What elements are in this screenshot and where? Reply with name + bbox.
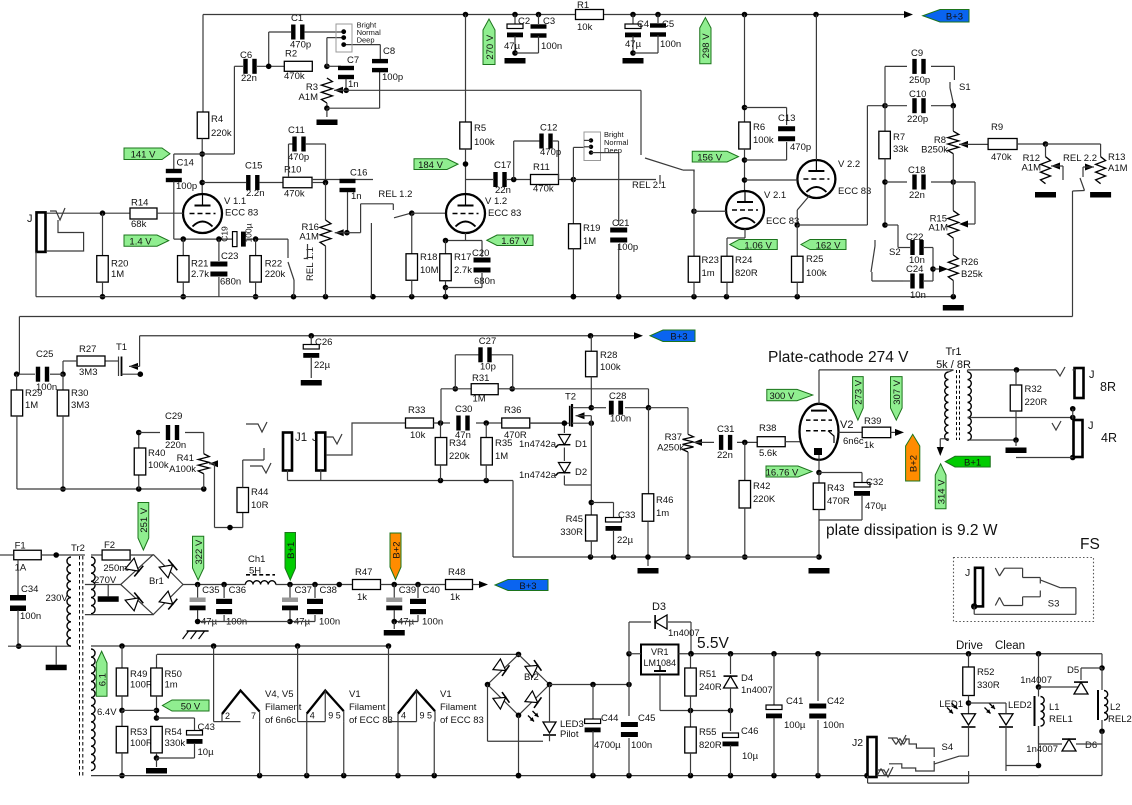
svg-text:C7: C7 [347,55,359,66]
svg-text:R9: R9 [991,122,1003,133]
svg-text:4R: 4R [1101,431,1117,445]
svg-text:240R: 240R [699,682,722,693]
svg-text:R5: R5 [474,123,486,134]
svg-text:5H: 5H [249,566,261,577]
svg-text:1n4742a: 1n4742a [519,470,557,481]
svg-text:R7: R7 [893,132,905,143]
svg-text:R48: R48 [448,567,465,578]
svg-text:10k: 10k [410,430,426,441]
svg-text:1m: 1m [656,508,669,519]
svg-text:100R: 100R [130,680,153,691]
svg-text:D3: D3 [652,601,666,613]
svg-text:5: 5 [427,711,432,721]
svg-text:J: J [1089,369,1095,381]
svg-text:R38: R38 [759,423,776,434]
svg-text:C14: C14 [177,158,194,169]
svg-text:LED1: LED1 [939,699,963,710]
svg-text:of ECC 83: of ECC 83 [349,715,393,726]
svg-text:220k: 220k [211,128,232,139]
svg-text:100n: 100n [20,611,41,622]
svg-text:V 2.1: V 2.1 [764,190,786,201]
svg-text:100k: 100k [474,137,495,148]
svg-text:C18: C18 [908,165,925,176]
svg-text:330R: 330R [560,527,583,538]
svg-text:220k: 220k [449,451,470,462]
svg-text:820R: 820R [735,268,758,279]
svg-text:C31: C31 [717,424,734,435]
svg-text:100n: 100n [319,617,340,628]
svg-text:Plate-cathode 274 V: Plate-cathode 274 V [768,349,909,366]
svg-text:C17: C17 [494,160,511,171]
svg-text:100n: 100n [631,740,652,751]
svg-text:50 V: 50 V [181,701,201,712]
svg-text:C32: C32 [866,477,883,488]
svg-text:1n4007: 1n4007 [1020,675,1052,686]
svg-text:470p: 470p [790,142,811,153]
svg-text:ECC 83: ECC 83 [488,208,521,219]
svg-text:230V: 230V [46,593,69,604]
svg-text:A1M: A1M [299,232,319,243]
svg-text:VR1: VR1 [651,647,669,657]
svg-text:10n: 10n [910,290,926,301]
svg-text:R23: R23 [702,255,719,266]
svg-text:R14: R14 [131,198,148,209]
svg-text:1m: 1m [165,680,178,691]
svg-text:47µ: 47µ [625,39,642,50]
svg-text:REL2: REL2 [1108,714,1132,725]
svg-text:1M: 1M [473,394,486,405]
svg-text:ECC 83: ECC 83 [225,208,258,219]
svg-text:R19: R19 [583,223,600,234]
svg-text:2.7k: 2.7k [191,269,209,280]
svg-text:R55: R55 [699,727,716,738]
svg-text:4700µ: 4700µ [594,740,621,751]
svg-text:100p: 100p [382,72,403,83]
svg-text:680n: 680n [474,276,495,287]
svg-text:C43: C43 [198,722,215,733]
svg-text:C8: C8 [383,46,395,57]
svg-text:5.6k: 5.6k [759,448,777,459]
svg-text:R29: R29 [25,388,42,399]
svg-text:R1: R1 [577,0,589,11]
svg-text:REL1: REL1 [1049,714,1073,725]
svg-text:F1: F1 [15,541,26,552]
svg-text:100p: 100p [617,242,638,253]
svg-text:T2: T2 [565,392,576,403]
svg-text:1M: 1M [583,236,596,247]
svg-text:B+1: B+1 [964,457,981,468]
svg-text:ECC 83: ECC 83 [766,216,799,227]
svg-text:C29: C29 [165,411,182,422]
svg-text:C39: C39 [399,585,416,596]
svg-text:1A: 1A [15,563,27,574]
svg-text:1M: 1M [495,451,508,462]
svg-text:REL 1.1: REL 1.1 [305,247,316,281]
svg-text:C9: C9 [911,48,923,59]
svg-text:273 V: 273 V [854,379,865,404]
svg-text:10p: 10p [480,362,496,373]
svg-text:C20: C20 [472,248,489,259]
svg-text:250p: 250p [909,75,930,86]
svg-text:C42: C42 [827,696,844,707]
svg-text:270 V: 270 V [485,34,496,59]
svg-text:B+1: B+1 [286,542,297,559]
svg-text:Br1: Br1 [149,576,164,587]
svg-text:470k: 470k [991,152,1012,163]
svg-text:1M: 1M [111,269,124,280]
svg-text:C33: C33 [618,510,635,521]
svg-text:100n: 100n [823,720,844,731]
svg-text:V1: V1 [349,689,361,700]
svg-text:V 1.2: V 1.2 [485,196,507,207]
svg-text:D6: D6 [1085,740,1097,751]
svg-text:2.7k: 2.7k [454,265,472,276]
svg-text:A1M: A1M [1021,163,1041,174]
svg-text:C6: C6 [240,50,252,61]
svg-text:162 V: 162 V [816,240,841,251]
svg-text:B+3: B+3 [670,332,687,343]
svg-text:220K: 220K [753,494,776,505]
svg-text:5k / 8R: 5k / 8R [936,359,971,371]
svg-text:R25: R25 [806,254,823,265]
svg-text:J1: J1 [295,432,307,444]
svg-text:C13: C13 [778,113,795,124]
svg-text:B+3: B+3 [946,12,963,23]
svg-text:L2: L2 [1110,702,1121,713]
svg-text:298 V: 298 V [701,33,712,58]
svg-text:R35: R35 [495,438,512,449]
svg-text:A250k: A250k [657,443,684,454]
svg-text:R26: R26 [961,257,978,268]
svg-text:R13: R13 [1108,152,1125,163]
svg-text:D5: D5 [1067,665,1079,676]
svg-text:16.76 V: 16.76 V [766,467,799,478]
svg-text:B+2: B+2 [909,455,920,472]
svg-text:R30: R30 [71,388,88,399]
svg-text:8R: 8R [1100,380,1116,394]
svg-text:R50: R50 [165,669,182,680]
svg-text:251 V: 251 V [139,507,150,532]
svg-text:1n: 1n [348,79,359,90]
svg-text:Deep: Deep [357,36,375,45]
svg-text:plate dissipation is 9.2 W: plate dissipation is 9.2 W [826,522,998,539]
svg-text:Ch1: Ch1 [248,554,265,565]
svg-text:C46: C46 [741,726,758,737]
svg-text:R52: R52 [977,667,994,678]
svg-text:R49: R49 [130,669,147,680]
svg-text:100R: 100R [130,738,153,749]
svg-text:D1: D1 [575,439,587,450]
svg-text:C35: C35 [202,585,219,596]
svg-text:100n: 100n [422,617,443,628]
svg-text:R6: R6 [753,122,765,133]
svg-text:4: 4 [310,711,315,721]
svg-text:1n4007: 1n4007 [741,685,773,696]
svg-text:C12: C12 [540,123,557,134]
svg-text:470R: 470R [827,496,850,507]
svg-text:B+2: B+2 [391,541,402,558]
svg-text:470k: 470k [284,71,305,82]
svg-text:R21: R21 [191,259,208,270]
svg-text:C26: C26 [315,337,332,348]
svg-text:22n: 22n [495,185,511,196]
svg-text:of 6n6c: of 6n6c [265,715,296,726]
svg-text:V 1.1: V 1.1 [224,196,246,207]
svg-text:47µ: 47µ [504,41,521,52]
svg-text:C27: C27 [479,336,496,347]
svg-text:R41: R41 [177,453,194,464]
svg-text:L1: L1 [1049,702,1060,713]
svg-text:R39: R39 [864,416,881,427]
svg-text:Clean: Clean [995,640,1025,652]
svg-text:3M3: 3M3 [79,367,97,378]
svg-text:Filament: Filament [265,702,302,713]
svg-text:2: 2 [225,711,230,721]
svg-text:184 V: 184 V [418,160,443,171]
svg-text:R40: R40 [148,448,165,459]
svg-text:220p: 220p [907,114,928,125]
svg-text:10µ: 10µ [742,751,759,762]
svg-text:C36: C36 [229,585,246,596]
svg-text:9: 9 [420,711,425,721]
svg-text:156 V: 156 V [697,152,722,163]
svg-text:J: J [965,567,970,579]
svg-text:680n: 680n [220,277,241,288]
svg-text:V2: V2 [840,419,853,431]
svg-text:100n: 100n [541,41,562,52]
svg-text:R31: R31 [472,373,489,384]
svg-text:R43: R43 [827,483,844,494]
svg-text:B+3: B+3 [519,581,536,592]
svg-text:D4: D4 [741,673,753,684]
svg-text:R32: R32 [1025,384,1042,395]
svg-text:Pilot: Pilot [560,729,579,740]
svg-text:C40: C40 [423,585,440,596]
svg-text:22n: 22n [717,450,733,461]
svg-text:100n: 100n [660,39,681,50]
svg-text:R36: R36 [504,405,521,416]
svg-text:R24: R24 [735,255,752,266]
svg-text:REL 2.2: REL 2.2 [1063,153,1097,164]
svg-text:1k: 1k [864,440,874,451]
svg-text:1n: 1n [351,191,362,202]
svg-text:T1: T1 [116,342,127,353]
svg-text:220k: 220k [265,269,286,280]
svg-text:3M3: 3M3 [71,400,89,411]
svg-text:470k: 470k [284,189,305,200]
svg-text:100k: 100k [600,362,621,373]
svg-text:33k: 33k [893,144,909,155]
svg-text:10R: 10R [251,500,269,511]
svg-text:C23: C23 [221,251,238,262]
svg-text:REL 2.1: REL 2.1 [632,180,666,191]
svg-text:300 V: 300 V [769,391,794,402]
svg-text:C37: C37 [295,585,312,596]
svg-text:S3: S3 [1048,598,1060,609]
svg-text:J: J [1088,420,1094,432]
svg-text:68k: 68k [131,219,147,230]
svg-text:A100k: A100k [169,464,196,475]
svg-text:470k: 470k [533,184,554,195]
svg-text:R44: R44 [251,487,268,498]
svg-text:R42: R42 [753,481,770,492]
svg-text:6n6c: 6n6c [843,436,864,447]
svg-text:22µ: 22µ [617,535,634,546]
svg-text:Drive: Drive [956,640,983,652]
svg-text:of ECC 83: of ECC 83 [440,715,484,726]
svg-text:C5: C5 [662,19,674,30]
svg-text:R27: R27 [79,344,96,355]
svg-text:220n: 220n [165,440,186,451]
svg-text:820R: 820R [699,740,722,751]
svg-text:C3: C3 [543,16,555,27]
svg-text:A1M: A1M [298,92,318,103]
svg-text:S4: S4 [942,742,954,753]
svg-text:10k: 10k [577,22,593,33]
svg-text:C34: C34 [21,584,38,595]
svg-text:5: 5 [336,711,341,721]
svg-text:R34: R34 [449,438,466,449]
svg-text:C16: C16 [350,168,367,179]
svg-text:R10: R10 [284,165,301,176]
svg-text:C30: C30 [455,404,472,415]
svg-text:J2: J2 [852,737,863,749]
svg-text:Tr1: Tr1 [945,346,961,358]
svg-text:C45: C45 [638,713,655,724]
svg-text:Tr2: Tr2 [71,543,85,554]
svg-text:B25k: B25k [961,269,983,280]
svg-text:C11: C11 [288,125,305,136]
svg-text:470p: 470p [290,40,311,51]
svg-text:R45: R45 [566,514,583,525]
svg-text:100µ: 100µ [784,720,806,731]
svg-text:R53: R53 [130,727,147,738]
svg-text:100n: 100n [610,414,631,425]
svg-text:100k: 100k [148,460,169,471]
svg-text:1n4742a: 1n4742a [519,439,557,450]
svg-text:R4: R4 [211,114,223,125]
svg-text:2.2n: 2.2n [246,188,265,199]
svg-text:R17: R17 [454,252,471,263]
svg-text:R28: R28 [600,350,617,361]
svg-text:R18: R18 [420,252,437,263]
svg-text:Br2: Br2 [524,672,539,683]
svg-text:100p: 100p [176,181,197,192]
svg-text:C1: C1 [291,13,303,24]
svg-text:1.4 V: 1.4 V [129,236,152,247]
svg-text:C10: C10 [909,89,926,100]
svg-text:C15: C15 [245,161,262,172]
svg-text:FS: FS [1080,536,1100,553]
svg-text:ECC 83: ECC 83 [838,186,871,197]
svg-text:C41: C41 [786,696,803,707]
svg-text:220R: 220R [1025,397,1048,408]
svg-text:C44: C44 [601,713,618,724]
svg-text:330k: 330k [165,738,186,749]
svg-text:C28: C28 [609,391,626,402]
svg-text:C24: C24 [906,264,923,275]
svg-text:R33: R33 [408,405,425,416]
svg-text:314 V: 314 V [936,479,947,504]
svg-text:Filament: Filament [440,702,477,713]
svg-text:1k: 1k [450,592,460,603]
svg-text:100k: 100k [753,135,774,146]
svg-text:1k: 1k [357,592,367,603]
svg-text:1.67 V: 1.67 V [501,236,529,247]
svg-text:22n: 22n [909,190,925,201]
svg-text:307 V: 307 V [892,379,903,404]
svg-text:1M: 1M [25,400,38,411]
svg-text:1.06 V: 1.06 V [744,240,772,251]
svg-text:1n4007: 1n4007 [668,628,700,639]
svg-text:322 V: 322 V [194,539,205,564]
svg-text:R20: R20 [111,259,128,270]
svg-text:D2: D2 [575,467,587,478]
svg-text:C4: C4 [637,19,649,30]
svg-text:S2: S2 [889,247,901,258]
svg-text:C21: C21 [612,218,629,229]
svg-text:470µ: 470µ [865,501,887,512]
svg-text:6.1: 6.1 [97,673,108,686]
svg-text:LED2: LED2 [1008,700,1032,711]
svg-text:100k: 100k [806,268,827,279]
svg-text:R37: R37 [665,432,682,443]
svg-text:REL 1.2: REL 1.2 [378,189,412,200]
svg-text:R54: R54 [165,727,182,738]
svg-text:10µ: 10µ [198,747,215,758]
svg-text:10M: 10M [420,265,439,276]
svg-text:1m: 1m [702,268,715,279]
svg-text:22n: 22n [241,73,257,84]
svg-text:330R: 330R [977,680,1000,691]
svg-text:470p: 470p [288,152,309,163]
svg-text:C22: C22 [906,232,923,243]
svg-text:V1: V1 [440,689,452,700]
svg-text:A1M: A1M [1108,163,1128,174]
svg-text:R47: R47 [355,567,372,578]
svg-text:R11: R11 [533,162,550,173]
svg-text:5.5V: 5.5V [697,635,730,652]
svg-text:22µ: 22µ [314,360,331,371]
svg-text:R22: R22 [265,259,282,270]
svg-text:V 2.2: V 2.2 [838,159,860,170]
svg-text:4: 4 [401,711,406,721]
svg-text:J: J [27,213,33,225]
svg-text:9: 9 [328,711,333,721]
svg-text:6.4V: 6.4V [97,707,117,718]
svg-text:F2: F2 [104,540,115,551]
svg-text:141 V: 141 V [131,150,156,161]
svg-text:R46: R46 [656,495,673,506]
svg-text:V4, V5: V4, V5 [265,689,294,700]
svg-text:R51: R51 [699,669,716,680]
svg-text:Filament: Filament [349,702,386,713]
svg-text:C19: C19 [220,226,230,242]
svg-text:7: 7 [251,711,256,721]
svg-text:A1M: A1M [928,223,948,234]
svg-text:C25: C25 [36,349,53,360]
svg-text:B250k: B250k [921,145,948,156]
svg-text:1n4007: 1n4007 [1026,744,1058,755]
svg-text:470p: 470p [540,147,561,158]
svg-text:S1: S1 [959,82,971,93]
svg-text:C38: C38 [320,585,337,596]
svg-text:C2: C2 [518,16,530,27]
